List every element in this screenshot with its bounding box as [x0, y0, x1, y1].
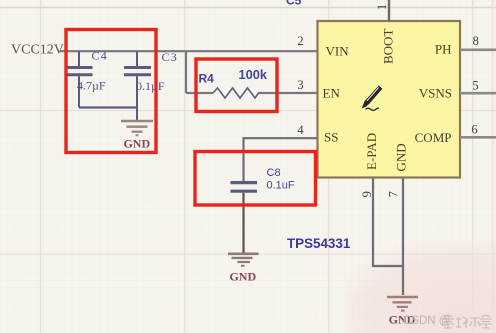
capacitor C8 symbol [231, 183, 258, 192]
svg-text:PH: PH [435, 42, 452, 57]
pin 5 VSNS wire [460, 92, 496, 95]
svg-text:R4: R4 [199, 72, 215, 86]
svg-text:3: 3 [297, 78, 303, 92]
ground symbol under C3 [121, 121, 153, 135]
pin 6 COMP wire [460, 136, 496, 139]
svg-text:1: 1 [375, 4, 389, 10]
svg-text:7: 7 [387, 191, 401, 197]
red highlight box around R4 [196, 59, 277, 112]
svg-text:9: 9 [360, 191, 374, 197]
svg-text:C3: C3 [162, 50, 178, 64]
svg-text:TPS54331: TPS54331 [287, 236, 351, 251]
svg-text:SS: SS [324, 130, 338, 145]
pin 8 PH wire [460, 48, 496, 51]
svg-text:6: 6 [471, 123, 477, 137]
svg-text:VSNS: VSNS [419, 85, 452, 100]
red highlight box around C8 [195, 152, 316, 206]
pin 1 BOOT wire (top) [388, 0, 390, 21]
wire joining pin9 and pin7 [372, 265, 403, 267]
ground symbol under pin7 [387, 297, 418, 311]
svg-text:0.1uF: 0.1uF [267, 180, 295, 192]
svg-text:GND: GND [123, 137, 150, 151]
svg-text:5: 5 [472, 79, 478, 93]
wire junction to resistor left [186, 92, 213, 94]
wire C8 bottom to ground [242, 193, 244, 253]
wire joining C4 and C3 bottoms [79, 106, 137, 108]
svg-text:BOOT: BOOT [381, 29, 396, 64]
capacitor C3 symbol [124, 51, 151, 120]
edit pencil icon inside IC [362, 86, 383, 111]
svg-text:COMP: COMP [415, 130, 452, 145]
pink tint bottom right watermark zone [0, 0, 1, 1]
svg-text:4.7µF: 4.7µF [77, 79, 106, 93]
svg-text:VCC12V: VCC12V [11, 43, 64, 58]
svg-text:C8: C8 [267, 167, 281, 179]
svg-text:GND: GND [394, 143, 409, 171]
svg-text:100k: 100k [239, 67, 268, 82]
pink tint right edge [492, 0, 495, 333]
watermark CJK glyph strokes [442, 315, 492, 328]
ground symbol under C8 [228, 254, 259, 266]
wire VCC12V rail to VIN pin2 [60, 50, 317, 52]
pin 7 GND wire (bottom) [402, 178, 404, 296]
red highlight box around C4/C3 [66, 30, 156, 153]
wire SS pin4 to C8 top [244, 138, 318, 181]
svg-text:0.1µF: 0.1µF [136, 79, 165, 93]
svg-text:2: 2 [297, 34, 303, 48]
pin 9 E-PAD wire (bottom) [372, 178, 374, 267]
wire vertical drop at junction x=186 [185, 51, 187, 93]
resistor R4 zigzag [213, 88, 259, 98]
svg-text:EN: EN [323, 86, 341, 101]
wire resistor right to EN pin3 [258, 92, 317, 94]
svg-text:VIN: VIN [326, 44, 350, 59]
IC U? TPS54331 body [318, 21, 461, 178]
svg-text:GND: GND [229, 270, 256, 284]
svg-text:8: 8 [473, 34, 479, 48]
capacitor C4 symbol [66, 51, 93, 107]
svg-text:CSDN @: CSDN @ [403, 315, 450, 327]
svg-text:E-PAD: E-PAD [364, 133, 379, 170]
svg-text:C5: C5 [286, 0, 302, 8]
svg-text:4: 4 [297, 123, 304, 137]
svg-text:C4: C4 [92, 49, 108, 63]
